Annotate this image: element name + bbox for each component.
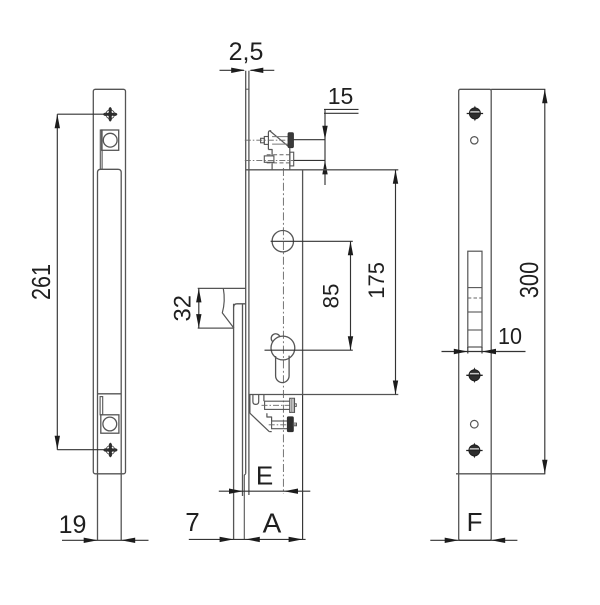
svg-text:261: 261 bbox=[26, 264, 56, 300]
left view roller link bar top bbox=[100, 130, 102, 169]
lock case bottom line with 175 extension bbox=[249, 394, 398, 396]
left view top screw bbox=[103, 107, 117, 121]
faceplate edge view left line bbox=[245, 71, 247, 474]
dimension 10 left arrow bbox=[454, 349, 468, 354]
dimension 19 right arrow bbox=[121, 538, 135, 543]
left view 261 top leader line bbox=[57, 113, 104, 115]
left view roller link bar bottom bbox=[100, 397, 103, 415]
bottom bracket U notch bbox=[253, 395, 259, 405]
dimension E left arrow bbox=[229, 489, 243, 494]
faceplate bottom jog bbox=[244, 474, 245, 540]
latch bolt nose bbox=[222, 288, 234, 328]
right view body bottom line with 300 extension bbox=[456, 473, 545, 475]
right view slot line 2 bbox=[468, 311, 482, 313]
dimension 261 top arrow bbox=[55, 114, 60, 128]
right view slot dashed line bbox=[468, 297, 482, 299]
faceplate top tick bbox=[246, 88, 249, 90]
case vertical centerline bbox=[282, 168, 284, 494]
top keeper bracket outline bbox=[268, 131, 271, 150]
right view slot line 1 bbox=[468, 287, 482, 289]
svg-text:15: 15 bbox=[328, 83, 354, 109]
dimension 261 line bbox=[56, 114, 58, 450]
lower bolt left head bbox=[264, 156, 274, 162]
top bolt centerline bbox=[245, 139, 288, 141]
dimension 15 shelf lines bbox=[324, 108, 359, 110]
bottom bolt2 shaft bbox=[272, 421, 288, 429]
dimension 32 line bbox=[198, 288, 200, 328]
lock case right extension to A dim bbox=[302, 395, 304, 540]
left view top roller circle bbox=[103, 133, 117, 147]
bottom bracket right edge bbox=[263, 395, 265, 402]
left view bottom roller circle bbox=[103, 417, 117, 431]
top bolt dark head bbox=[288, 133, 293, 148]
euro cylinder bump bbox=[271, 334, 280, 342]
dimension 10 line bbox=[442, 351, 526, 353]
right view bottom small hole bbox=[471, 420, 479, 428]
bottom bolt2 tip bbox=[293, 423, 296, 426]
left view faceplate plate bbox=[93, 89, 125, 474]
dimension E right arrow bbox=[284, 489, 298, 494]
svg-text:10: 10 bbox=[498, 323, 522, 349]
dimension F left arrow bbox=[445, 538, 459, 543]
right view slot extension lines bbox=[467, 347, 469, 354]
dimension 2,5 right arrow bbox=[249, 68, 263, 73]
dimension 15 up arrow bbox=[322, 160, 327, 174]
lower bolt right flange bbox=[290, 152, 294, 166]
svg-text:175: 175 bbox=[364, 262, 389, 299]
bottom bracket diagonal bbox=[250, 413, 269, 431]
dimension 2,5 left arrow bbox=[231, 68, 245, 73]
dimension 7 left arrow bbox=[220, 537, 234, 542]
dimension 85 line bbox=[350, 241, 352, 350]
dimension 175 line bbox=[395, 170, 397, 395]
euro cylinder horizontal centerline with 85 extension bbox=[265, 349, 353, 351]
right view slot line 3 bbox=[468, 329, 482, 331]
latch bolt 32 bottom line bbox=[198, 327, 234, 329]
dimension F line bbox=[430, 539, 517, 541]
left view 261 bottom leader line bbox=[57, 449, 104, 451]
euro cylinder keyway bbox=[276, 356, 290, 383]
dimension 10 right arrow bbox=[482, 349, 496, 354]
right view top extension to 300 dim bbox=[491, 88, 545, 90]
slide rod front edge bbox=[233, 304, 235, 540]
right view top small hole bbox=[471, 137, 478, 144]
right view follower slot bbox=[468, 251, 482, 347]
bottom bracket step bbox=[267, 413, 272, 421]
dimension 175 down arrow bbox=[393, 381, 398, 395]
bottom bolt2 dark head bbox=[287, 417, 293, 432]
dimension 175 up arrow bbox=[393, 170, 398, 184]
dimension 85 down arrow bbox=[348, 336, 353, 350]
dimension 261 bottom arrow bbox=[55, 436, 60, 450]
lower bolt centerline bbox=[245, 159, 293, 161]
lock case right edge bbox=[302, 170, 304, 395]
right view bar bbox=[459, 89, 492, 540]
svg-text:E: E bbox=[256, 461, 273, 491]
left view bottom screw bbox=[103, 443, 117, 457]
svg-text:F: F bbox=[467, 507, 483, 537]
bottom bolt1 centerline bbox=[262, 404, 297, 406]
dimension 300 top arrow bbox=[542, 89, 547, 103]
dimension 32 down arrow bbox=[196, 314, 201, 328]
dimension 7 right arrow bbox=[246, 537, 260, 542]
right view bottom screw bbox=[466, 443, 482, 459]
dimension 19 left arrow bbox=[84, 538, 98, 543]
svg-text:A: A bbox=[263, 508, 282, 539]
dimension 15 down arrow bbox=[322, 126, 327, 140]
slide rod top edge bbox=[234, 304, 246, 307]
svg-text:85: 85 bbox=[319, 284, 344, 309]
bottom bolt2 centerline bbox=[269, 424, 297, 426]
right view middle screw bbox=[466, 367, 482, 383]
bottom bolt1 head bbox=[290, 398, 295, 412]
latch bolt 32 top line bbox=[198, 287, 246, 289]
dimension 32 up arrow bbox=[196, 288, 201, 302]
euro cylinder circle bbox=[271, 336, 295, 360]
right view top screw bbox=[467, 106, 483, 122]
top bolt shaft lines bbox=[272, 136, 288, 138]
lower bolt extension line to 15 dim bbox=[294, 159, 326, 161]
spindle hole horizontal line with 85 extension bbox=[271, 240, 353, 242]
dimension 7-A line bbox=[189, 538, 306, 540]
lock case top line with 175 extension bbox=[246, 169, 399, 171]
dimension 15 vertical line bbox=[324, 109, 326, 185]
bottom bracket bottom edge bbox=[269, 431, 272, 433]
dimension A right arrow bbox=[289, 537, 303, 542]
svg-text:2,5: 2,5 bbox=[229, 38, 264, 66]
svg-text:7: 7 bbox=[185, 507, 199, 537]
top bolt left tip bbox=[261, 138, 265, 143]
slide rod back edge bbox=[242, 305, 244, 497]
dimension 2,5 line right bbox=[251, 69, 275, 71]
svg-text:300: 300 bbox=[514, 262, 544, 299]
dimension E line bbox=[219, 490, 310, 492]
svg-text:19: 19 bbox=[59, 511, 87, 539]
left view top roller housing bbox=[102, 130, 119, 150]
faceplate edge view right line bbox=[248, 71, 250, 495]
bottom bracket left edge bbox=[249, 395, 251, 414]
top bolt left head bbox=[264, 137, 268, 145]
dimension 85 up arrow bbox=[348, 241, 353, 255]
bottom bolt1 shaft bbox=[265, 401, 290, 409]
bottom bolt1 tip bbox=[295, 404, 297, 407]
left view bottom roller housing bbox=[101, 415, 119, 433]
svg-text:32: 32 bbox=[170, 295, 197, 322]
spindle hole circle bbox=[272, 231, 293, 252]
dimension 19 line bbox=[62, 539, 149, 541]
dimension 300 line bbox=[544, 89, 546, 474]
dimension 2,5 line left bbox=[220, 69, 245, 71]
dimension F right arrow bbox=[491, 538, 505, 543]
top bolt extension line to 15 dim bbox=[293, 139, 325, 141]
left view lock body bbox=[98, 169, 122, 540]
dimension 300 bottom arrow bbox=[542, 460, 547, 474]
lower bolt dashed shaft bbox=[267, 154, 290, 156]
